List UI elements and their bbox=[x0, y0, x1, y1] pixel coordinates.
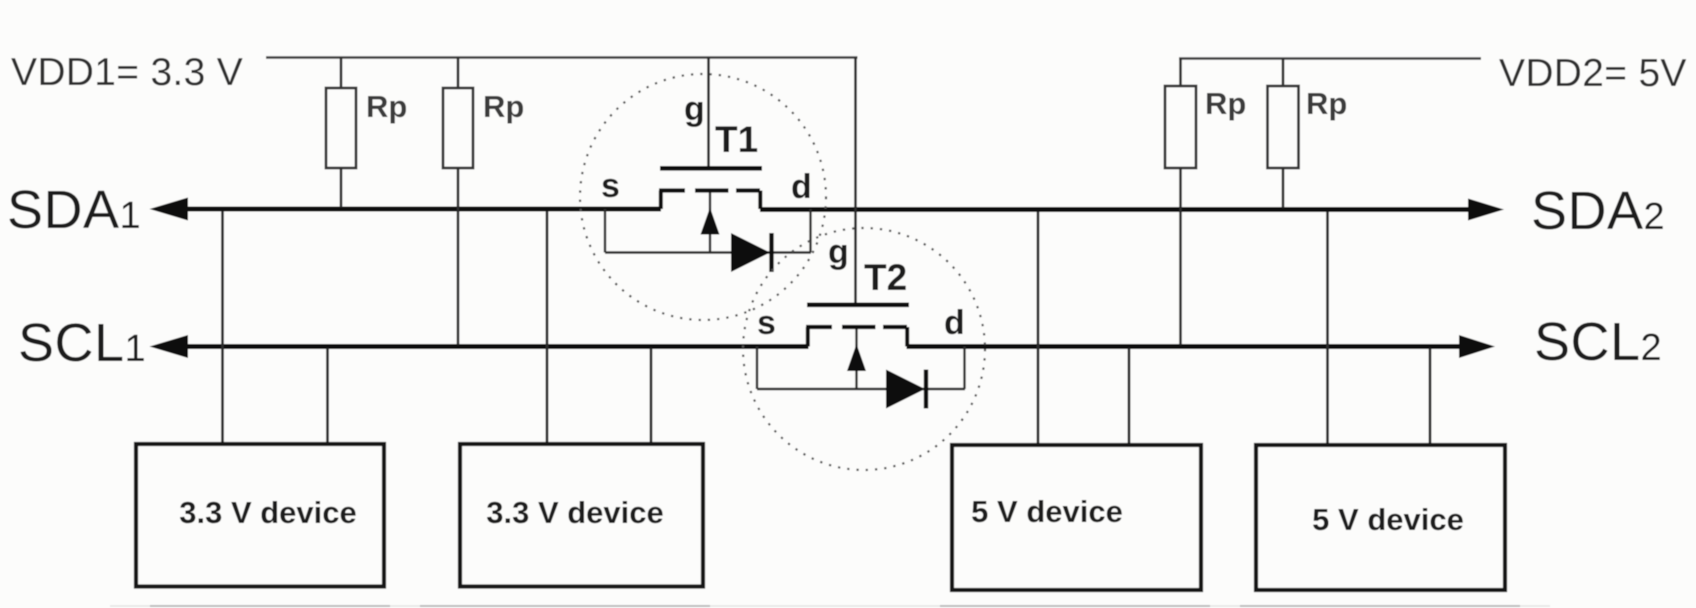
T2 substrate arrow bbox=[855, 329, 857, 389]
T1 gate bar bbox=[660, 166, 762, 171]
svg-text:3.3 V device: 3.3 V device bbox=[486, 495, 664, 530]
svg-text:VDD2= 5V: VDD2= 5V bbox=[1499, 52, 1687, 95]
T2 gate wire from VDD1 rail bbox=[854, 58, 857, 304]
wire box3 SDA bbox=[1037, 212, 1040, 446]
wire box1 SCL bbox=[326, 348, 329, 444]
svg-text:T2: T2 bbox=[864, 257, 907, 298]
T1 drain contact step bbox=[758, 191, 762, 210]
T2 dotted highlight circle bbox=[743, 228, 985, 470]
svg-text:g: g bbox=[684, 90, 705, 128]
VDD2 rail wire bbox=[1179, 57, 1481, 59]
svg-text:s: s bbox=[757, 304, 776, 342]
T2 body diode bbox=[886, 370, 925, 409]
svg-text:5 V device: 5 V device bbox=[1312, 502, 1464, 537]
T2 drain contact step bbox=[905, 327, 909, 347]
T2 channel (dashed) bbox=[806, 325, 832, 329]
resistor Rp (right, SCL2 pull-up) bbox=[1165, 59, 1246, 346]
transistor T2 (MOSFET on SCL line) bbox=[743, 58, 985, 471]
device box 1 (3.3 V device) bbox=[136, 444, 384, 587]
wire box4 SDA bbox=[1326, 212, 1329, 446]
SDA1 bus wire bbox=[166, 207, 661, 212]
device box 2 (3.3 V device) bbox=[460, 444, 703, 587]
resistor Rp (left, SDA1 pull-up) bbox=[326, 58, 407, 208]
wire box1 SDA bbox=[221, 211, 224, 444]
T1 channel (dashed) bbox=[659, 188, 685, 192]
SCL1 bus wire bbox=[166, 344, 809, 349]
svg-text:g: g bbox=[828, 233, 849, 271]
wire box2 SCL bbox=[650, 348, 653, 444]
faint scan artifact line at bottom bbox=[110, 605, 1550, 607]
T1 dotted highlight circle bbox=[580, 74, 826, 320]
svg-text:Rp: Rp bbox=[366, 89, 407, 124]
svg-text:VDD1= 3.3 V: VDD1= 3.3 V bbox=[11, 51, 243, 94]
SDA2 arrow bbox=[1468, 199, 1504, 221]
wire box3 SCL bbox=[1128, 348, 1131, 445]
SDA1 arrow bbox=[150, 198, 189, 221]
wire box4 SCL bbox=[1429, 348, 1432, 445]
T1 gate wire from VDD1 rail bbox=[707, 58, 710, 167]
svg-text:T1: T1 bbox=[715, 119, 758, 160]
svg-text:Rp: Rp bbox=[483, 89, 524, 124]
T2 source contact step bbox=[806, 327, 810, 347]
T2 gate bar bbox=[807, 302, 909, 307]
VDD1 rail wire bbox=[266, 56, 858, 58]
svg-text:d: d bbox=[944, 304, 965, 342]
svg-text:5 V device: 5 V device bbox=[971, 494, 1123, 529]
resistor Rp (left, SCL1 pull-up) bbox=[443, 58, 524, 346]
T2 body wire bbox=[756, 347, 758, 390]
SCL1 arrow bbox=[150, 335, 189, 358]
svg-text:d: d bbox=[791, 168, 812, 206]
svg-text:s: s bbox=[601, 167, 620, 205]
svg-text:Rp: Rp bbox=[1205, 86, 1246, 121]
T1 body diode bbox=[731, 233, 770, 272]
T1 substrate arrow bbox=[709, 193, 711, 253]
SCL2 arrow bbox=[1459, 335, 1495, 358]
svg-text:Rp: Rp bbox=[1306, 86, 1347, 121]
device box 4 (5 V device) bbox=[1256, 445, 1505, 590]
T1 source contact step bbox=[659, 191, 663, 210]
SDA2 bus wire bbox=[760, 207, 1469, 212]
resistor Rp (right, SDA2 pull-up) bbox=[1268, 59, 1348, 209]
svg-text:3.3 V device: 3.3 V device bbox=[179, 495, 357, 530]
transistor T1 (MOSFET on SDA line) bbox=[580, 58, 826, 321]
device box 3 (5 V device) bbox=[952, 445, 1201, 590]
wire box2 SDA bbox=[546, 211, 549, 444]
T1 body wire bbox=[604, 209, 606, 253]
SCL2 bus wire bbox=[907, 344, 1460, 349]
